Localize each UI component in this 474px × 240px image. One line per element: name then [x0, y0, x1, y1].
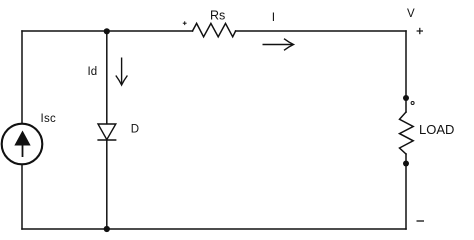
tiny plus mark near Rs	[183, 21, 187, 25]
tiny circle mark near LOAD top	[411, 102, 414, 105]
wire right lower	[405, 154, 407, 229]
current source U1	[2, 124, 43, 165]
node A top	[104, 28, 110, 34]
node C load top	[403, 95, 409, 101]
svg-text:Id: Id	[88, 66, 98, 78]
current arrow Id	[116, 58, 128, 86]
svg-text:LOAD: LOAD	[419, 122, 454, 137]
wire right upper	[405, 31, 407, 112]
wire bottom	[22, 228, 406, 230]
svg-text:Rs: Rs	[210, 9, 225, 23]
resistor Rs	[193, 23, 236, 36]
svg-text:Isc: Isc	[41, 113, 57, 125]
svg-text:D: D	[131, 123, 139, 135]
svg-text:V: V	[407, 8, 415, 20]
svg-text:I: I	[272, 10, 275, 24]
node D load bottom	[403, 161, 409, 167]
wire left	[21, 31, 23, 124]
wire left lower	[21, 164, 23, 229]
wire diode branch lower	[106, 140, 108, 229]
diode D	[97, 124, 116, 140]
wire top-right segment	[236, 30, 406, 32]
node B bottom	[104, 226, 110, 232]
wire diode branch upper	[106, 31, 108, 124]
minus sign of V	[417, 220, 425, 222]
current arrow I	[263, 39, 294, 51]
plus sign of V	[417, 28, 423, 34]
resistor LOAD	[400, 112, 414, 154]
wire top-left segment	[22, 30, 193, 32]
